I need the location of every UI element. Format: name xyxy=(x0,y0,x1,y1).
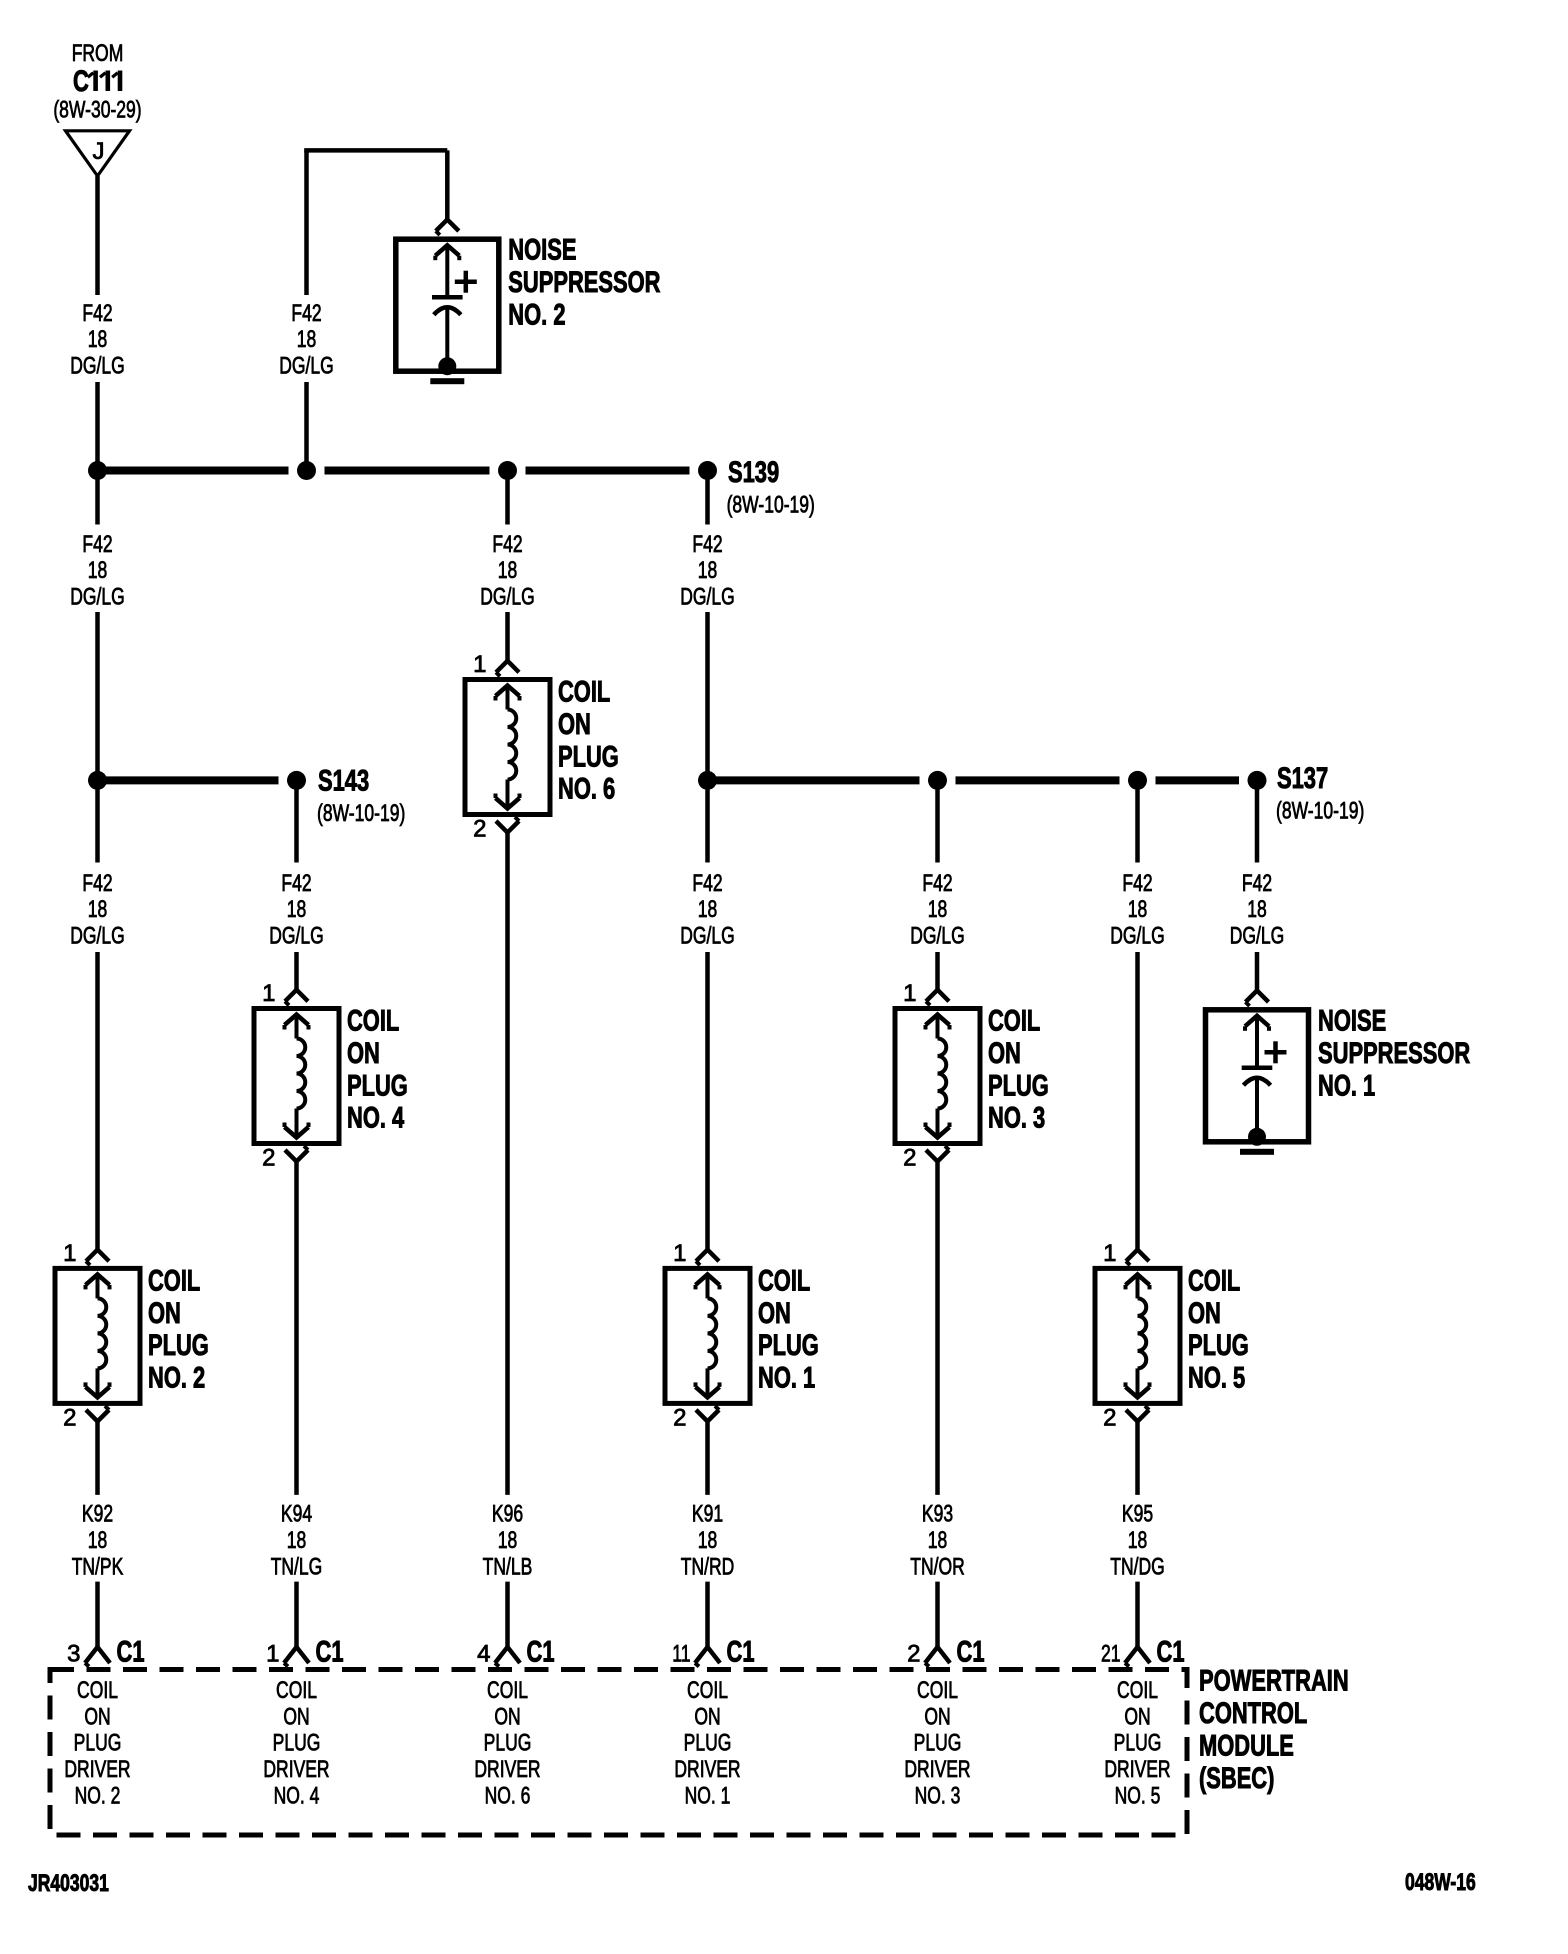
junction dot S139 xyxy=(698,461,717,480)
wire col6 to coil on plug no. 5 xyxy=(1135,952,1140,1250)
svg-text:DRIVER: DRIVER xyxy=(64,1756,130,1783)
svg-text:ON: ON xyxy=(758,1297,791,1330)
svg-text:DRIVER: DRIVER xyxy=(904,1756,970,1783)
ignition coil L (coil on plug no. 3) xyxy=(895,1009,980,1144)
svg-text:4: 4 xyxy=(477,1641,490,1668)
svg-text:18: 18 xyxy=(1128,896,1148,923)
svg-text:F42: F42 xyxy=(692,531,722,558)
svg-text:DG/LG: DG/LG xyxy=(70,353,125,380)
svg-text:18: 18 xyxy=(88,1527,108,1554)
wire xyxy=(1135,1582,1140,1647)
wire stub below S139 bus xyxy=(95,471,100,525)
svg-text:COIL: COIL xyxy=(1117,1677,1158,1704)
svg-text:F42: F42 xyxy=(692,870,722,897)
svg-text:3: 3 xyxy=(67,1641,80,1668)
wire col3 to coil on plug no. 6 xyxy=(505,612,510,661)
svg-text:DG/LG: DG/LG xyxy=(680,584,735,611)
svg-text:COIL: COIL xyxy=(1188,1264,1240,1297)
wire xyxy=(304,382,309,471)
svg-text:DRIVER: DRIVER xyxy=(263,1756,329,1783)
wire stub below S139 bus xyxy=(705,471,710,525)
svg-text:(8W-10-19): (8W-10-19) xyxy=(317,800,405,827)
svg-text:PLUG: PLUG xyxy=(1114,1730,1162,1757)
svg-text:NO. 4: NO. 4 xyxy=(274,1782,320,1809)
svg-text:PLUG: PLUG xyxy=(684,1730,732,1757)
svg-text:1: 1 xyxy=(63,1240,76,1267)
PCM connector pin 4 C1 fork xyxy=(495,1647,520,1663)
wire K92 to PCM xyxy=(95,1421,100,1495)
powertrain control module (SBEC) dashed outline xyxy=(50,1670,1187,1836)
wire K96 to PCM xyxy=(505,833,510,1495)
svg-text:ON: ON xyxy=(347,1037,380,1070)
svg-text:TN/OR: TN/OR xyxy=(910,1553,965,1580)
svg-text:PLUG: PLUG xyxy=(74,1730,122,1757)
svg-text:TN/LG: TN/LG xyxy=(271,1553,323,1580)
polarity + sign (noise suppressor no. 2) xyxy=(455,279,477,284)
svg-text:2: 2 xyxy=(262,1145,275,1172)
svg-text:S139: S139 xyxy=(728,456,779,489)
svg-text:18: 18 xyxy=(498,557,518,584)
svg-text:(8W-30-29): (8W-30-29) xyxy=(53,97,141,124)
wire C111 to splice S139 (col 1 top) xyxy=(95,176,100,295)
svg-text:048W-16: 048W-16 xyxy=(1405,1869,1476,1896)
svg-text:1: 1 xyxy=(266,1641,279,1668)
wire col5 to coil on plug no. 3 xyxy=(935,952,940,990)
svg-text:NO. 6: NO. 6 xyxy=(558,773,615,806)
ignition coil L (coil on plug no. 4) xyxy=(254,1009,339,1144)
svg-text:ON: ON xyxy=(283,1703,309,1730)
svg-text:K92: K92 xyxy=(82,1501,113,1528)
svg-text:JR403031: JR403031 xyxy=(28,1870,109,1897)
wire stub below S139 bus xyxy=(505,471,510,525)
svg-text:18: 18 xyxy=(88,896,108,923)
svg-text:NO. 2: NO. 2 xyxy=(148,1362,205,1395)
svg-text:PLUG: PLUG xyxy=(1188,1329,1249,1362)
svg-text:11: 11 xyxy=(672,1641,690,1668)
svg-text:COIL: COIL xyxy=(276,1677,317,1704)
svg-text:NO. 1: NO. 1 xyxy=(758,1362,815,1395)
svg-text:2: 2 xyxy=(907,1641,920,1668)
svg-text:FROM: FROM xyxy=(72,40,124,67)
svg-text:NO. 2: NO. 2 xyxy=(508,299,565,332)
bus wire S143 splice run xyxy=(98,776,279,784)
svg-text:DG/LG: DG/LG xyxy=(1110,923,1165,950)
svg-text:PLUG: PLUG xyxy=(758,1329,819,1362)
svg-text:DG/LG: DG/LG xyxy=(910,923,965,950)
noise suppressor no. 1 capacitor C xyxy=(1206,1010,1309,1142)
svg-text:K93: K93 xyxy=(922,1501,953,1528)
svg-text:DG/LG: DG/LG xyxy=(70,584,125,611)
svg-text:NOISE: NOISE xyxy=(1318,1004,1386,1037)
junction dot S143 xyxy=(287,771,306,790)
wire stub below splice bus xyxy=(294,780,299,862)
wire col2 to coil on plug no. 4 xyxy=(294,952,299,990)
svg-text:NO. 3: NO. 3 xyxy=(915,1782,961,1809)
svg-text:COIL: COIL xyxy=(487,1677,528,1704)
wire xyxy=(935,1582,940,1647)
capacitor plates (noise suppressor no. 1) xyxy=(1242,1066,1273,1071)
svg-text:PLUG: PLUG xyxy=(484,1730,532,1757)
svg-text:18: 18 xyxy=(297,326,317,353)
PCM connector pin 3 C1 fork xyxy=(85,1647,110,1663)
svg-text:DRIVER: DRIVER xyxy=(474,1756,540,1783)
ground junction dot (noise suppressor no. 1) xyxy=(1248,1128,1266,1146)
svg-text:SUPPRESSOR: SUPPRESSOR xyxy=(508,266,660,299)
junction dot xyxy=(498,461,517,480)
svg-text:(8W-10-19): (8W-10-19) xyxy=(727,492,815,519)
svg-text:18: 18 xyxy=(287,896,307,923)
svg-text:DG/LG: DG/LG xyxy=(269,923,324,950)
wire xyxy=(95,1582,100,1647)
PCM connector pin 21 C1 fork xyxy=(1125,1647,1150,1663)
junction dot xyxy=(297,461,316,480)
svg-text:COIL: COIL xyxy=(558,676,610,709)
svg-text:(SBEC): (SBEC) xyxy=(1199,1762,1274,1795)
svg-text:NOISE: NOISE xyxy=(508,234,576,267)
wire col4 to splice S137 xyxy=(705,612,710,780)
svg-text:NO. 1: NO. 1 xyxy=(685,1782,731,1809)
svg-text:ON: ON xyxy=(988,1037,1021,1070)
wire from splice S139 up to noise suppressor no. 2 xyxy=(304,150,309,295)
svg-text:POWERTRAIN: POWERTRAIN xyxy=(1199,1665,1349,1698)
svg-text:COIL: COIL xyxy=(148,1264,200,1297)
junction dot xyxy=(928,771,947,790)
svg-text:SUPPRESSOR: SUPPRESSOR xyxy=(1318,1037,1470,1070)
bus wire S139 splice run xyxy=(98,467,289,475)
svg-text:1: 1 xyxy=(262,980,275,1007)
svg-text:ON: ON xyxy=(494,1703,520,1730)
ground symbol (noise suppressor no. 2) xyxy=(430,378,464,384)
svg-text:C1: C1 xyxy=(957,1636,985,1669)
svg-text:18: 18 xyxy=(698,557,718,584)
svg-text:ON: ON xyxy=(1124,1703,1150,1730)
svg-text:DRIVER: DRIVER xyxy=(1104,1756,1170,1783)
wire K95 to PCM xyxy=(1135,1421,1140,1495)
svg-text:K95: K95 xyxy=(1122,1501,1153,1528)
wire col4 to coil on plug no. 1 xyxy=(705,952,710,1250)
svg-text:2: 2 xyxy=(473,816,486,843)
svg-text:NO. 2: NO. 2 xyxy=(75,1782,121,1809)
svg-text:DG/LG: DG/LG xyxy=(680,923,735,950)
svg-text:COIL: COIL xyxy=(917,1677,958,1704)
svg-text:DG/LG: DG/LG xyxy=(1230,923,1285,950)
svg-text:2: 2 xyxy=(673,1404,686,1431)
wire col1 to coil on plug no. 2 xyxy=(95,952,100,1250)
ignition coil L (coil on plug no. 1) xyxy=(665,1268,750,1403)
svg-text:ON: ON xyxy=(558,708,591,741)
noise suppressor no. 2 capacitor C xyxy=(396,239,499,371)
svg-text:DG/LG: DG/LG xyxy=(480,584,535,611)
ignition coil L (coil on plug no. 2) xyxy=(55,1268,140,1403)
svg-text:F42: F42 xyxy=(82,870,112,897)
svg-text:18: 18 xyxy=(1128,1527,1148,1554)
svg-text:COIL: COIL xyxy=(347,1005,399,1038)
svg-text:TN/DG: TN/DG xyxy=(1110,1553,1165,1580)
svg-text:COIL: COIL xyxy=(758,1264,810,1297)
svg-text:C: C xyxy=(73,65,89,98)
svg-text:18: 18 xyxy=(928,1527,948,1554)
svg-text:CONTROL: CONTROL xyxy=(1199,1697,1307,1730)
svg-text:1: 1 xyxy=(473,651,486,678)
junction dot xyxy=(88,771,107,790)
svg-text:C1: C1 xyxy=(527,1636,555,1669)
junction dot xyxy=(698,771,717,790)
svg-text:NO. 6: NO. 6 xyxy=(485,1782,531,1809)
junction dot S137 xyxy=(1248,771,1267,790)
wire xyxy=(505,1582,510,1647)
svg-text:PLUG: PLUG xyxy=(273,1730,321,1757)
wire xyxy=(705,1582,710,1647)
svg-text:PLUG: PLUG xyxy=(148,1329,209,1362)
svg-text:F42: F42 xyxy=(291,300,321,327)
svg-text:COIL: COIL xyxy=(988,1005,1040,1038)
wire stub below splice bus xyxy=(935,780,940,862)
wire col1 to splice S143 xyxy=(95,612,100,780)
svg-text:ON: ON xyxy=(1188,1297,1221,1330)
svg-text:ON: ON xyxy=(924,1703,950,1730)
wire K93 to PCM xyxy=(935,1162,940,1495)
svg-text:TN/PK: TN/PK xyxy=(72,1553,124,1580)
svg-text:(8W-10-19): (8W-10-19) xyxy=(1276,798,1364,825)
svg-text:DRIVER: DRIVER xyxy=(674,1756,740,1783)
svg-text:NO. 5: NO. 5 xyxy=(1188,1362,1245,1395)
svg-text:DG/LG: DG/LG xyxy=(279,353,334,380)
wire xyxy=(294,1582,299,1647)
svg-text:ON: ON xyxy=(148,1297,181,1330)
ground symbol (noise suppressor no. 1) xyxy=(1240,1149,1274,1155)
svg-text:MODULE: MODULE xyxy=(1199,1730,1294,1763)
svg-text:18: 18 xyxy=(88,326,108,353)
svg-text:COIL: COIL xyxy=(687,1677,728,1704)
svg-text:18: 18 xyxy=(928,896,948,923)
svg-text:J: J xyxy=(93,138,105,165)
svg-text:F42: F42 xyxy=(82,531,112,558)
svg-text:K94: K94 xyxy=(281,1501,312,1528)
svg-text:ON: ON xyxy=(84,1703,110,1730)
svg-text:C1: C1 xyxy=(117,1636,145,1669)
connector chevron at noise suppressor no. 1 xyxy=(1246,991,1269,1003)
bus wire S137 splice run xyxy=(708,776,920,784)
svg-text:F42: F42 xyxy=(922,870,952,897)
wire K91 to PCM xyxy=(705,1421,710,1495)
svg-text:F42: F42 xyxy=(492,531,522,558)
svg-text:18: 18 xyxy=(88,557,108,584)
svg-text:PLUG: PLUG xyxy=(988,1069,1049,1102)
junction dot xyxy=(1128,771,1147,790)
svg-text:1: 1 xyxy=(673,1240,686,1267)
svg-text:S137: S137 xyxy=(1277,762,1328,795)
svg-text:18: 18 xyxy=(698,1527,718,1554)
svg-text:PLUG: PLUG xyxy=(914,1730,962,1757)
PCM connector pin 11 C1 fork xyxy=(695,1647,720,1663)
svg-text:1: 1 xyxy=(903,980,916,1007)
svg-text:F42: F42 xyxy=(281,870,311,897)
svg-text:C1: C1 xyxy=(316,1636,344,1669)
polarity + sign (noise suppressor no. 1) xyxy=(1265,1050,1287,1055)
svg-text:2: 2 xyxy=(1103,1404,1116,1431)
svg-text:18: 18 xyxy=(498,1527,518,1554)
svg-text:PLUG: PLUG xyxy=(347,1069,408,1102)
svg-text:DG/LG: DG/LG xyxy=(70,923,125,950)
wire stub below splice bus xyxy=(1255,780,1260,862)
wire stub below splice bus xyxy=(1135,780,1140,862)
wire xyxy=(95,382,100,471)
svg-text:PLUG: PLUG xyxy=(558,740,619,773)
svg-text:18: 18 xyxy=(287,1527,307,1554)
wire stub below splice bus xyxy=(705,780,710,862)
svg-text:F42: F42 xyxy=(1242,870,1272,897)
connector chevron at noise suppressor no. 2 xyxy=(436,220,459,232)
wire col7 to noise suppressor no. 1 xyxy=(1255,952,1260,991)
svg-text:F42: F42 xyxy=(1122,870,1152,897)
svg-text:S143: S143 xyxy=(318,765,369,798)
svg-text:C1: C1 xyxy=(1157,1636,1185,1669)
svg-text:2: 2 xyxy=(63,1404,76,1431)
PCM connector pin 2 C1 fork xyxy=(925,1647,950,1663)
svg-text:18: 18 xyxy=(698,896,718,923)
ignition coil L (coil on plug no. 6) xyxy=(465,680,550,815)
svg-text:K96: K96 xyxy=(492,1501,523,1528)
svg-text:C1: C1 xyxy=(727,1636,755,1669)
wire K94 to PCM xyxy=(294,1162,299,1495)
svg-text:NO. 3: NO. 3 xyxy=(988,1102,1045,1135)
svg-text:2: 2 xyxy=(903,1145,916,1172)
svg-text:21: 21 xyxy=(1101,1641,1121,1668)
svg-text:1: 1 xyxy=(1103,1240,1116,1267)
svg-text:NO. 1: NO. 1 xyxy=(1318,1069,1375,1102)
svg-text:F42: F42 xyxy=(82,300,112,327)
capacitor plates (noise suppressor no. 2) xyxy=(432,295,463,300)
svg-text:NO. 4: NO. 4 xyxy=(347,1102,404,1135)
ignition coil L (coil on plug no. 5) xyxy=(1095,1268,1180,1403)
svg-text:TN/RD: TN/RD xyxy=(681,1553,735,1580)
svg-text:18: 18 xyxy=(1247,896,1267,923)
svg-text:ON: ON xyxy=(694,1703,720,1730)
PCM connector pin 1 C1 fork xyxy=(284,1647,309,1663)
ground junction dot (noise suppressor no. 2) xyxy=(438,357,456,375)
off-page connector triangle J xyxy=(66,131,130,176)
svg-text:TN/LB: TN/LB xyxy=(483,1553,533,1580)
junction dot xyxy=(88,461,107,480)
svg-text:COIL: COIL xyxy=(77,1677,118,1704)
svg-text:K91: K91 xyxy=(692,1501,723,1528)
wire stub below splice bus xyxy=(95,780,100,862)
svg-text:NO. 5: NO. 5 xyxy=(1115,1782,1161,1809)
